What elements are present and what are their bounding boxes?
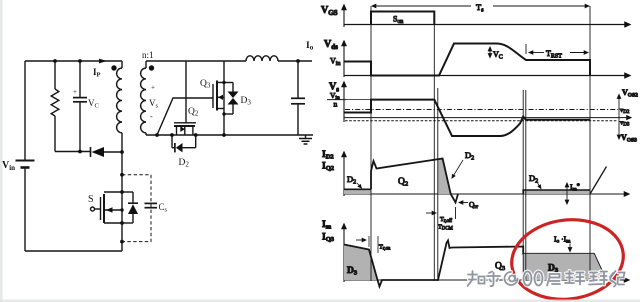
node diode bottom [120, 240, 124, 244]
shaded region D2 left [344, 189, 371, 194]
wire switch column [121, 152, 123, 251]
reference dashdot line Vd3 [345, 120, 618, 122]
pointer D2 right [537, 182, 541, 189]
shaded region D2 right [523, 190, 590, 195]
svg-text:D3: D3 [241, 96, 252, 107]
transformer T1 primary winding [117, 61, 122, 152]
arrow Ip current [99, 59, 107, 64]
transistor S main switch [95, 192, 123, 223]
axis Vds [344, 41, 630, 77]
wire secondary bottom rail [146, 134, 313, 136]
svg-text:VGS: VGS [321, 5, 338, 17]
wire clamp bottom [55, 151, 90, 153]
svg-text:D2: D2 [347, 174, 356, 185]
timing marker line t1 [370, 6, 372, 281]
svg-text:VC: VC [88, 98, 99, 110]
transformer polarity dot secondary [149, 65, 154, 70]
svg-text:Tr,on: Tr,on [379, 244, 391, 252]
char hu [487, 272, 500, 287]
svg-text:n: n [334, 100, 338, 109]
char li [565, 271, 585, 285]
wire top rail primary [25, 60, 122, 62]
svg-text:TRST: TRST [546, 49, 562, 60]
label Vin/n fraction [327, 91, 346, 109]
timing marker line t5 [525, 90, 527, 281]
transformer T1 secondary winding [141, 61, 146, 135]
capacitor Cs snubber [145, 203, 158, 207]
wire gate line Q2 vertical [185, 61, 187, 123]
shaded region D3 right [523, 254, 606, 280]
transistor Q2 (sync rectifier) [174, 123, 196, 135]
dimension Vc [489, 47, 491, 58]
node switch top [120, 150, 124, 154]
node resistor top [53, 59, 57, 63]
timing marker line t3 [437, 88, 439, 281]
svg-text:VOS2: VOS2 [622, 88, 638, 99]
snubber dashed box [122, 175, 151, 242]
pointer Qrr [459, 202, 468, 204]
tick Troff end [455, 207, 457, 219]
node capacitor top [78, 59, 82, 63]
svg-text:vD3: vD3 [620, 120, 630, 128]
svg-text:-: - [150, 112, 153, 121]
edge tint bottom [0, 300, 640, 302]
diode D2 (body diode loop) [172, 135, 196, 152]
svg-text:Io: Io [306, 41, 314, 52]
node S drain [120, 190, 124, 194]
svg-text:TDCM: TDCM [438, 224, 454, 232]
dimension voltage stress arrow [618, 95, 620, 140]
transistor Q3 (freewheel SR) [213, 61, 224, 135]
dimension Ts [372, 5, 589, 7]
char ban [589, 272, 607, 285]
axis Im [344, 224, 629, 282]
waveform Vs [344, 100, 590, 136]
svg-text:Vs: Vs [149, 98, 159, 110]
svg-text:n:1: n:1 [142, 50, 154, 60]
svg-text:IP: IP [93, 67, 101, 79]
node output cap top [296, 59, 300, 63]
capacitor Vc clamp [73, 61, 87, 152]
svg-text:+: + [151, 84, 155, 92]
svg-text:+: + [73, 88, 77, 96]
ground [299, 135, 312, 144]
svg-text:ID2: ID2 [322, 150, 334, 161]
axis Vs [344, 82, 631, 122]
inductor Lo output [246, 56, 312, 61]
timing marker line t2 [433, 12, 435, 282]
svg-text:vD2: vD2 [620, 107, 630, 115]
dimension Tron arrow [356, 239, 366, 241]
dimension Trst [529, 52, 588, 54]
pointer D2 left [357, 183, 362, 188]
svg-text:D2: D2 [529, 173, 538, 184]
dimension Im' [566, 183, 568, 204]
wire gate line Q3 diagonal [157, 98, 213, 135]
svg-text:Vin: Vin [2, 160, 15, 172]
node diagonal bottom [155, 133, 159, 137]
tick Trst start [525, 44, 527, 54]
edge D2 left band [344, 188, 371, 190]
shaded region D3 left [344, 245, 378, 281]
svg-text:Q3: Q3 [495, 262, 505, 273]
red ellipse highlight [507, 213, 628, 302]
node S body stub [120, 208, 123, 211]
dimension Troff arrow [426, 212, 436, 214]
pointer D2 mid [452, 160, 463, 178]
svg-text:IQ2: IQ2 [322, 162, 334, 173]
svg-text:Vin: Vin [330, 57, 340, 68]
node S source [120, 221, 124, 225]
char ji [610, 271, 625, 287]
edge D2 right band [523, 190, 590, 194]
node capacitor bottom [78, 150, 82, 154]
source Vin battery [16, 61, 35, 251]
svg-text:VOS3: VOS3 [621, 133, 637, 144]
diode D3 (body diode loop) [224, 83, 239, 115]
svg-text:Qrr: Qrr [469, 200, 478, 210]
svg-text:Ts: Ts [476, 2, 484, 14]
svg-text:IQ3: IQ3 [322, 233, 335, 244]
char zero [535, 272, 543, 286]
svg-text:Vds: Vds [324, 39, 338, 51]
level line Vin/n [346, 99, 371, 101]
axis Vgs [344, 5, 630, 27]
svg-text:Io ·Im: Io ·Im [554, 235, 571, 245]
char qi [547, 274, 560, 286]
svg-text:Son: Son [393, 15, 403, 25]
edge tint left [0, 0, 3, 302]
svg-text:Q2: Q2 [398, 177, 408, 188]
char zero [524, 272, 532, 286]
waveform Im left [344, 241, 606, 287]
node Q3 source rail [222, 133, 226, 137]
node box top [120, 173, 124, 177]
watermark zhihu (vector glyphs) [468, 271, 625, 287]
node D3 bottom [222, 112, 225, 115]
reference dashdot line Vos2 [345, 109, 618, 111]
waveform next period Iq2 rise [590, 167, 607, 195]
transformer polarity dot primary [111, 65, 116, 70]
svg-text:D2: D2 [179, 158, 190, 169]
diode D1 clamp [91, 147, 123, 157]
waveform Vds [344, 44, 590, 76]
diode Ds body of S [122, 192, 138, 223]
waveform Vgs pulse [371, 12, 434, 25]
axis Id2 [344, 152, 629, 196]
svg-text:Cs: Cs [159, 202, 168, 214]
node D2 left [170, 133, 174, 137]
svg-text:D2: D2 [465, 150, 474, 161]
shaded wedge D2 fall [438, 159, 451, 195]
resistor R clamp [51, 61, 59, 152]
label S gate circle [91, 207, 95, 211]
svg-text:Q2: Q2 [188, 107, 199, 118]
wire secondary top rail [146, 60, 246, 62]
tick Tron right [377, 236, 379, 253]
svg-text:S: S [88, 194, 94, 205]
capacitor Co output [291, 61, 305, 135]
timing marker line t6 period end [589, 6, 591, 281]
tick Tron left [368, 236, 370, 247]
svg-text:VC: VC [493, 50, 503, 61]
waveform Iq2 [371, 159, 458, 203]
char zhi [468, 271, 485, 286]
timing marker line t4 [522, 90, 524, 281]
node D2 right [194, 133, 198, 137]
pointer Io-Im [569, 244, 571, 252]
svg-text:Q3: Q3 [200, 79, 211, 90]
char at [505, 272, 518, 285]
node D3 top [222, 81, 225, 84]
wire bottom rail primary [25, 250, 122, 252]
svg-text:Im: Im [322, 220, 332, 231]
